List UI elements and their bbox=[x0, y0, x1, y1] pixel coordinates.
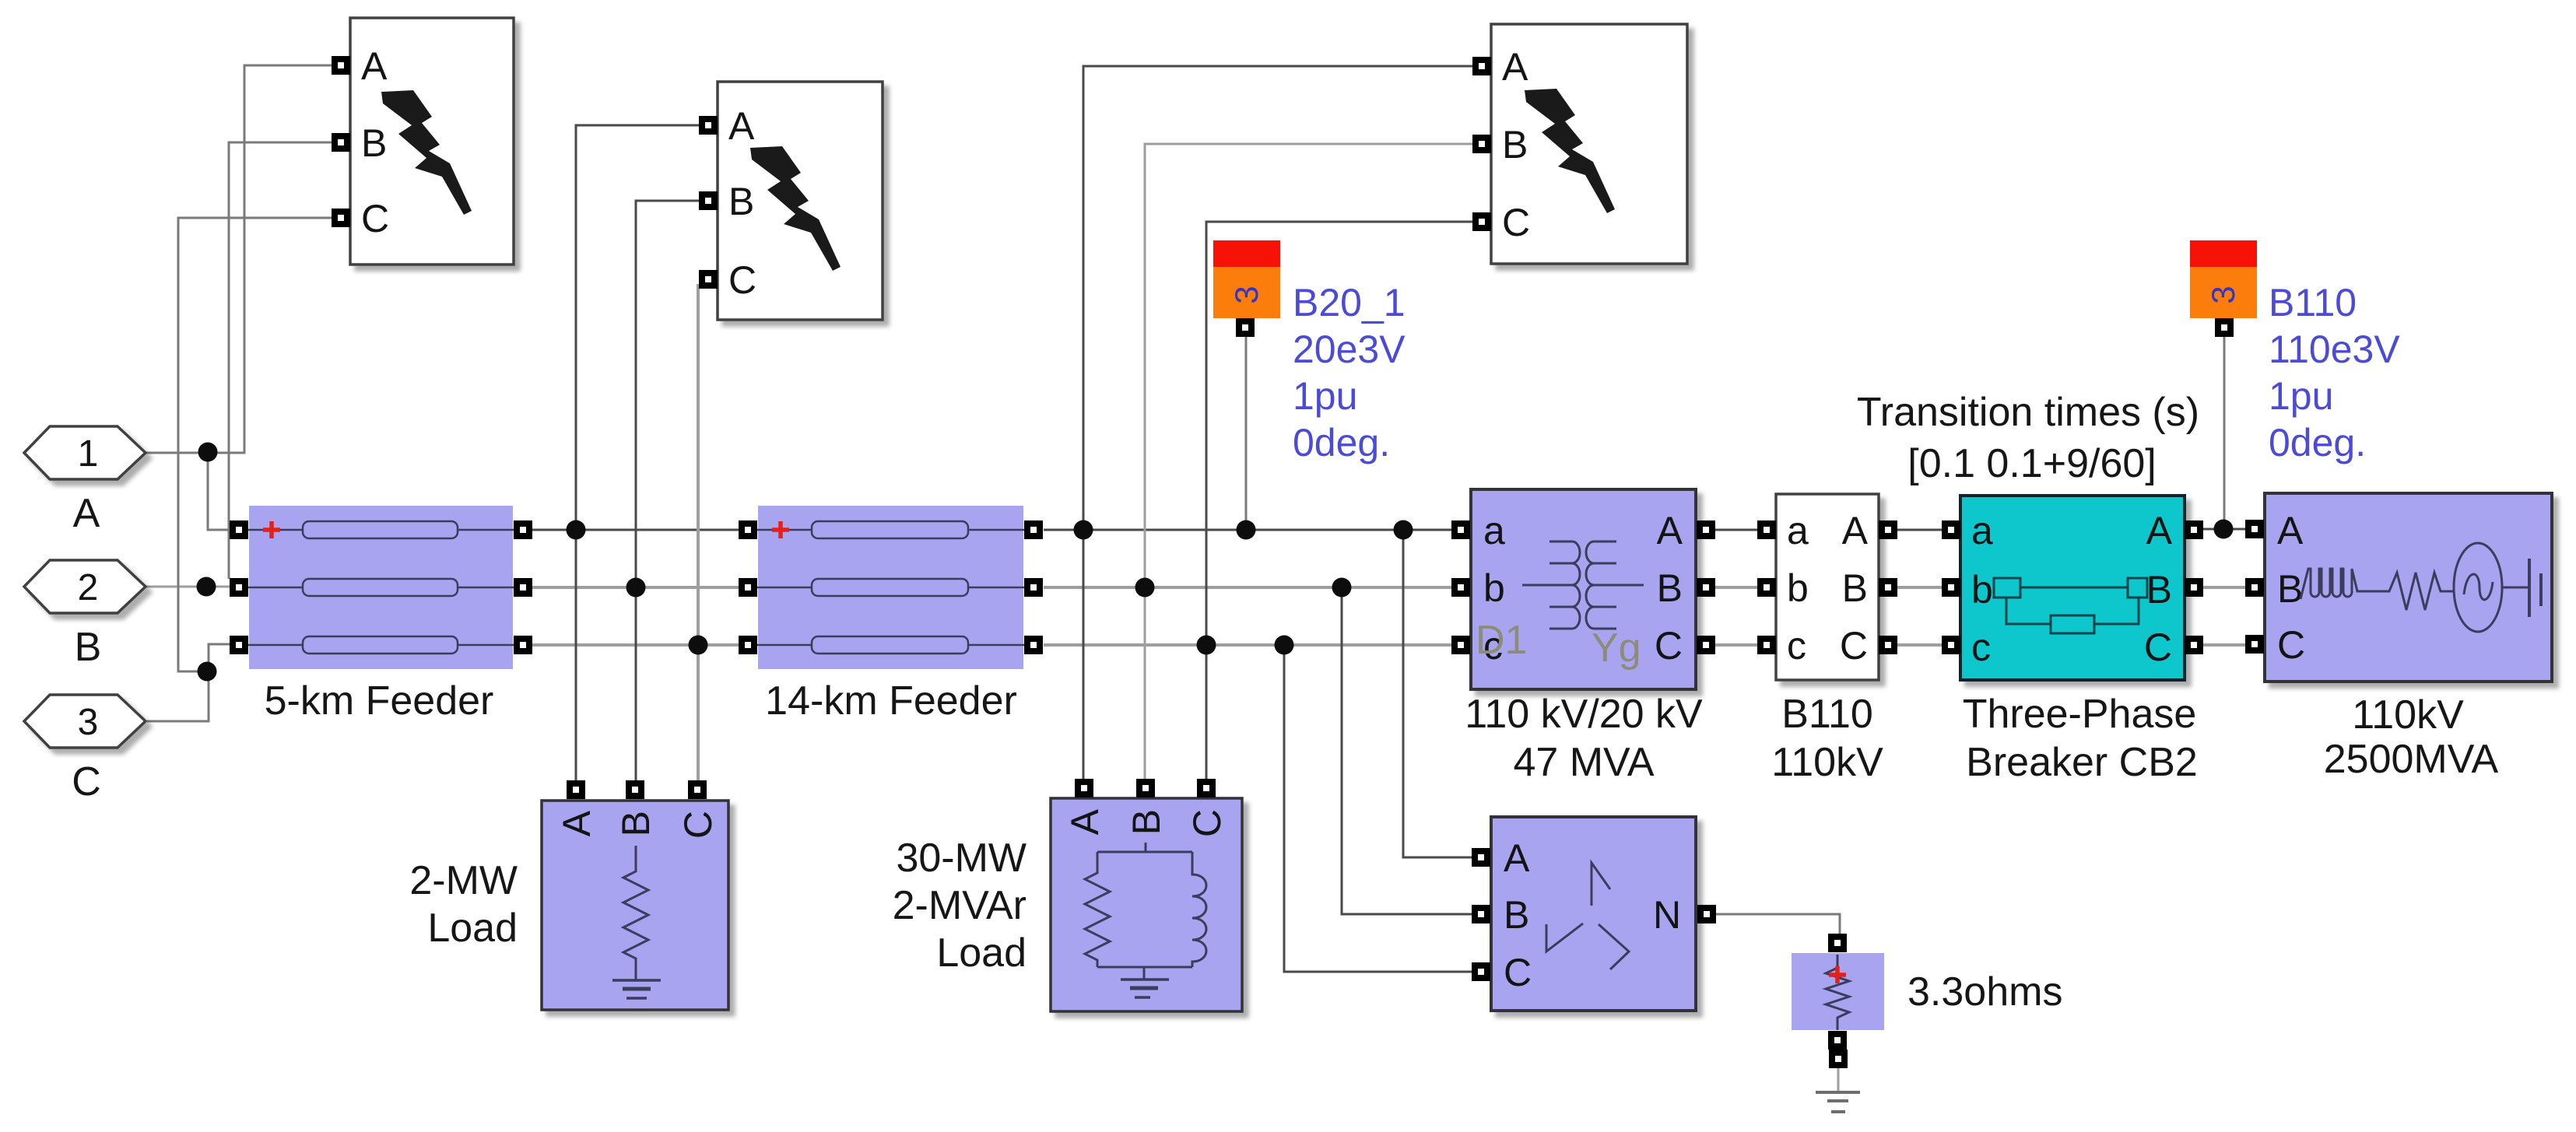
svg-text:2: 2 bbox=[78, 567, 99, 608]
wire 3.3ohms resistor to ground bbox=[1837, 1067, 1840, 1092]
svg-text:C: C bbox=[72, 759, 101, 804]
3.3ohms neutral grounding resistor block bbox=[1792, 934, 1884, 1068]
svg-text:B: B bbox=[361, 121, 387, 165]
svg-text:C: C bbox=[1185, 809, 1229, 837]
wire from input 2 to feeder B and fault F1 port B bbox=[146, 142, 341, 587]
ground symbol under 3.3ohms resistor bbox=[1816, 1092, 1860, 1112]
svg-text:A: A bbox=[2146, 509, 2173, 552]
B110 three-phase V-I measurement block bbox=[1757, 494, 1897, 680]
svg-text:A: A bbox=[728, 104, 755, 148]
svg-text:B: B bbox=[2146, 568, 2172, 612]
wire bus A tap to grounding transformer port A bbox=[1403, 530, 1472, 857]
wire bus C tap to grounding transformer port C bbox=[1284, 645, 1472, 972]
wire bus B tap to grounding transformer port B bbox=[1342, 587, 1472, 914]
svg-text:b: b bbox=[1971, 568, 1993, 612]
junction bus B / grounding transformer B bbox=[1332, 578, 1352, 598]
wire grounding transformer N to 3.3ohms resistor bbox=[1716, 914, 1840, 935]
svg-text:B110: B110 bbox=[2269, 281, 2357, 324]
junction bus B / fault F2 B / load1 B bbox=[626, 578, 646, 598]
wire fault F2 port C to bus C and load1 C bbox=[697, 284, 700, 780]
svg-text:1pu: 1pu bbox=[2269, 374, 2333, 418]
svg-text:3: 3 bbox=[2205, 286, 2241, 303]
svg-text:Three-Phase: Three-Phase bbox=[1963, 692, 2197, 737]
svg-text:C: C bbox=[1840, 624, 1868, 668]
junction input1 branch bbox=[198, 443, 218, 462]
svg-text:110e3V: 110e3V bbox=[2269, 328, 2400, 371]
svg-text:B: B bbox=[75, 625, 102, 670]
junction bus C / grounding transformer C bbox=[1275, 636, 1294, 655]
svg-text:C: C bbox=[1502, 201, 1530, 244]
junction bus B / fault F3 B / load2 B bbox=[1135, 578, 1155, 598]
svg-text:14-km Feeder: 14-km Feeder bbox=[765, 678, 1017, 724]
svg-text:Load: Load bbox=[427, 906, 518, 951]
junction bus A / B20_1 stem bbox=[1237, 520, 1256, 540]
svg-text:A: A bbox=[1504, 836, 1530, 880]
wire B110 measurement stem to bus A bbox=[2223, 335, 2226, 530]
svg-text:A: A bbox=[1842, 509, 1869, 552]
svg-text:110 kV/20 kV: 110 kV/20 kV bbox=[1465, 692, 1703, 737]
input port hexagon 2 (phase B trip) bbox=[24, 560, 146, 613]
transformer 110 kV / 20 kV 47 MVA block bbox=[1451, 489, 1715, 689]
svg-text:a: a bbox=[1483, 509, 1505, 552]
svg-text:N: N bbox=[1653, 893, 1681, 937]
three-phase fault block F1 bbox=[332, 18, 514, 265]
wire fault F3 port A to bus A and load2 A bbox=[1083, 66, 1472, 780]
wire fault F2 port B to bus B and load1 B bbox=[636, 201, 699, 780]
5-km Feeder block (distributed parameters line) bbox=[230, 506, 532, 669]
measurement flag B110 bbox=[2190, 240, 2257, 337]
wire bus phase A row bbox=[532, 529, 2246, 530]
svg-text:A: A bbox=[555, 810, 598, 836]
svg-text:Breaker CB2: Breaker CB2 bbox=[1966, 740, 2198, 785]
junction bus C / fault F3 C / load2 C bbox=[1197, 636, 1216, 655]
junction bus A / fault F2 A / load1 A bbox=[567, 520, 586, 540]
svg-text:C: C bbox=[361, 197, 389, 240]
2-MW Load block bbox=[542, 780, 728, 1010]
svg-text:C: C bbox=[2144, 626, 2172, 669]
svg-text:3: 3 bbox=[1228, 286, 1265, 303]
Three-Phase Breaker CB2 block bbox=[1942, 496, 2203, 680]
svg-text:30-MW: 30-MW bbox=[896, 836, 1027, 881]
svg-text:A: A bbox=[73, 491, 100, 536]
svg-text:B: B bbox=[1657, 566, 1683, 610]
svg-text:3.3ohms: 3.3ohms bbox=[1907, 969, 2062, 1015]
wire bus phase B row bbox=[532, 586, 2246, 589]
svg-text:c: c bbox=[1971, 626, 1991, 669]
svg-text:B: B bbox=[1125, 809, 1168, 835]
14-km Feeder block (distributed parameters line) bbox=[739, 506, 1043, 669]
svg-text:20e3V: 20e3V bbox=[1293, 328, 1406, 371]
svg-text:Transition times (s): Transition times (s) bbox=[1857, 390, 2199, 435]
svg-text:C: C bbox=[1504, 951, 1532, 994]
svg-text:C: C bbox=[676, 811, 720, 839]
wire B20_1 measurement stem to bus A bbox=[1245, 336, 1248, 530]
svg-text:A: A bbox=[1657, 509, 1683, 552]
svg-text:A: A bbox=[1502, 45, 1528, 89]
input port hexagon 1 (phase A trip) bbox=[24, 426, 146, 479]
svg-text:C: C bbox=[728, 258, 756, 302]
svg-text:b: b bbox=[1483, 566, 1505, 610]
svg-text:2-MW: 2-MW bbox=[409, 858, 518, 903]
svg-text:B20_1: B20_1 bbox=[1293, 281, 1406, 324]
svg-text:5-km Feeder: 5-km Feeder bbox=[265, 678, 494, 724]
junction bus A / fault F3 A / load2 A bbox=[1074, 520, 1093, 540]
junction bus A / grounding transformer A bbox=[1394, 520, 1413, 540]
wire fault F3 port B to bus B and load2 B bbox=[1145, 144, 1472, 780]
svg-text:A: A bbox=[1063, 808, 1107, 835]
svg-text:0deg.: 0deg. bbox=[2269, 421, 2366, 464]
measurement flag B20_1 bbox=[1213, 240, 1280, 337]
wire from input 1 to node, feeder A and fault F1 port A bbox=[146, 65, 341, 530]
three-phase fault block F2 bbox=[699, 82, 883, 320]
wire bus phase C row bbox=[532, 643, 2246, 647]
svg-text:a: a bbox=[1971, 509, 1993, 552]
svg-text:B110: B110 bbox=[1781, 692, 1873, 737]
input port hexagon 3 (phase C trip) bbox=[24, 695, 146, 748]
wire fault F3 port C to bus C and load2 C bbox=[1206, 222, 1472, 780]
svg-text:B: B bbox=[1502, 123, 1528, 166]
svg-text:C: C bbox=[1655, 624, 1683, 668]
svg-text:2-MVAr: 2-MVAr bbox=[893, 883, 1027, 928]
svg-text:2500MVA: 2500MVA bbox=[2324, 737, 2499, 782]
svg-text:B: B bbox=[614, 811, 658, 836]
svg-text:1: 1 bbox=[78, 433, 99, 475]
junction input3 branch bbox=[198, 662, 217, 682]
junction bus A / B110 stem bbox=[2214, 520, 2234, 539]
svg-text:A: A bbox=[361, 44, 388, 88]
svg-text:3: 3 bbox=[78, 702, 99, 743]
svg-text:C: C bbox=[2277, 623, 2305, 667]
svg-text:Yg: Yg bbox=[1592, 626, 1641, 671]
svg-text:[0.1 0.1+9/60]: [0.1 0.1+9/60] bbox=[1907, 441, 2157, 486]
svg-text:B: B bbox=[1504, 893, 1529, 937]
svg-text:B: B bbox=[728, 180, 754, 223]
svg-text:B: B bbox=[1842, 566, 1868, 610]
svg-text:b: b bbox=[1787, 566, 1809, 610]
junction input2 branch bbox=[197, 577, 216, 597]
svg-text:a: a bbox=[1787, 509, 1809, 552]
svg-text:110kV: 110kV bbox=[1771, 740, 1883, 785]
svg-text:c: c bbox=[1787, 624, 1806, 668]
svg-text:B: B bbox=[2277, 567, 2303, 611]
svg-text:1pu: 1pu bbox=[1293, 374, 1357, 418]
30-MW 2-MVAr Load block bbox=[1051, 779, 1242, 1011]
svg-text:Load: Load bbox=[936, 930, 1027, 976]
grounding (zigzag) transformer block bbox=[1472, 817, 1716, 1011]
svg-text:A: A bbox=[2277, 509, 2304, 552]
three-phase fault block F3 bbox=[1472, 24, 1687, 264]
junction bus C / fault F2 C / load1 C bbox=[689, 636, 708, 655]
svg-text:0deg.: 0deg. bbox=[1293, 421, 1390, 464]
svg-text:D1: D1 bbox=[1476, 618, 1527, 663]
svg-text:47 MVA: 47 MVA bbox=[1513, 740, 1654, 785]
svg-text:110kV: 110kV bbox=[2352, 692, 2464, 738]
wire from input 3 to feeder C and fault F1 port C bbox=[147, 218, 341, 721]
wire fault F2 port A to bus A and load1 A bbox=[576, 125, 699, 780]
110kV 2500MVA three-phase source block bbox=[2245, 493, 2552, 682]
